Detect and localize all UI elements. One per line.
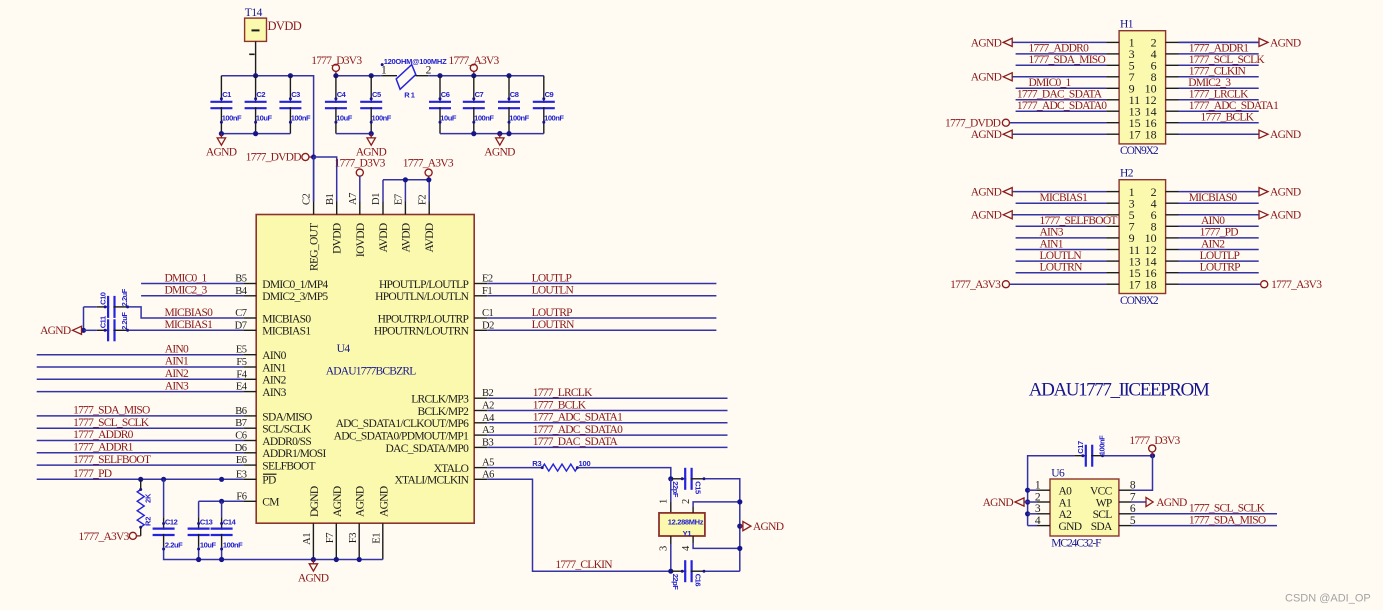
pin 15 and pin 16 of H1	[1106, 122, 1119, 124]
svg-text:HPOUTRN/LOUTRN: HPOUTRN/LOUTRN	[374, 326, 470, 338]
svg-text:C6: C6	[441, 90, 450, 99]
pin B3 DAC_SDATA/MP0 right of U4	[474, 446, 487, 448]
power port 1777_D3V3 at U6	[1149, 445, 1156, 452]
wire H2 left row net MICBIAS1	[1016, 202, 1107, 204]
svg-text:A2: A2	[1059, 509, 1073, 521]
wire A3V3 rail	[440, 75, 544, 77]
pin C6 ADDR0/SS left of U4	[243, 440, 256, 442]
wire H2 right row net AIN0	[1179, 225, 1259, 227]
svg-text:DMIC2_3: DMIC2_3	[165, 285, 208, 297]
svg-text:MICBIAS0: MICBIAS0	[262, 313, 311, 325]
svg-text:AGND: AGND	[983, 497, 1014, 509]
pin 15 and pin 16 of H2	[1106, 272, 1119, 274]
wire D3V3 rail	[336, 75, 381, 77]
svg-text:18: 18	[1145, 278, 1157, 292]
svg-text:HPOUTRP/LOUTRP: HPOUTRP/LOUTRP	[378, 313, 469, 325]
power port 1777_A3V3 at R2	[137, 535, 141, 537]
wire H1 pin17 to AGND	[1012, 133, 1106, 135]
svg-text:1777_ADDR1: 1777_ADDR1	[1189, 43, 1250, 55]
wire H2 left row net 1777_SELFBOOT	[1016, 225, 1107, 227]
svg-text:DMIC2_3: DMIC2_3	[1188, 77, 1231, 89]
svg-text:AGND: AGND	[356, 146, 387, 158]
svg-text:10uF: 10uF	[200, 540, 217, 549]
capacitor C3 100nF	[289, 76, 291, 103]
power port 1777_A3V3 H2 pin18	[1179, 283, 1261, 285]
pin A4 ADC_SDATA1/CLKOUT/MP6 right of U4	[474, 422, 487, 424]
pin F7 AGND bottom of U4	[335, 523, 337, 559]
svg-text:AGND: AGND	[206, 146, 237, 158]
svg-text:1777_D3V3: 1777_D3V3	[335, 158, 386, 170]
pin 7 and pin 8 of H1	[1106, 76, 1119, 78]
svg-text:SCL: SCL	[1093, 509, 1113, 521]
svg-text:100nF: 100nF	[372, 113, 392, 122]
wire net AIN1	[37, 366, 244, 368]
svg-text:AGND: AGND	[40, 325, 71, 337]
capacitor C11 2.2uF	[97, 329, 109, 331]
pin E6 SELFBOOT left of U4	[243, 464, 256, 466]
wire C6-C9 ground rail	[440, 133, 544, 135]
wire net LOUTRN	[487, 329, 716, 331]
capacitor C17 100nF	[1074, 455, 1087, 457]
wire H2 pin5 to AGND	[1012, 214, 1106, 216]
pin 11 and pin 12 of H1	[1106, 99, 1119, 101]
svg-text:2.2uF: 2.2uF	[120, 312, 129, 330]
svg-text:LOUTRP: LOUTRP	[1200, 262, 1241, 274]
svg-text:SDA/MISO: SDA/MISO	[262, 411, 312, 423]
svg-text:2: 2	[681, 499, 692, 504]
ground AGND H1 pin2	[1259, 38, 1268, 46]
ground AGND H2 pin1	[1003, 188, 1012, 196]
svg-text:1777_SCL_SCLK: 1777_SCL_SCLK	[1189, 54, 1266, 66]
pin E7 AVDD top of U4	[404, 202, 406, 215]
svg-text:A1: A1	[1059, 497, 1073, 509]
wire net 1777_CLKIN from XTALI	[487, 479, 671, 571]
svg-text:R1: R1	[404, 91, 416, 100]
resistor R2 2K pull to A3V3	[140, 479, 142, 489]
pin 3 and pin 4 of H2	[1106, 202, 1119, 204]
wire H2 left row net AIN3	[1016, 237, 1107, 239]
svg-text:3: 3	[659, 546, 670, 551]
svg-text:AGND: AGND	[355, 486, 367, 517]
svg-text:1777_BCLK: 1777_BCLK	[1201, 112, 1255, 124]
wire H1 right row net 1777_ADC_SDATA1	[1179, 110, 1259, 112]
wire H1 right row net 1777_CLKIN	[1179, 76, 1259, 78]
op-amp U4 ADAU1777BCBZRL body	[256, 215, 474, 524]
svg-text:C1: C1	[222, 90, 231, 99]
svg-text:DVDD: DVDD	[268, 19, 302, 33]
node D3V3 junction	[1150, 453, 1155, 458]
pin number 1 of T14	[249, 53, 254, 55]
svg-text:DMIC2_3/MP5: DMIC2_3/MP5	[262, 291, 328, 303]
wire net 1777_BCLK	[487, 410, 727, 412]
wire net CM	[199, 500, 244, 502]
pin A2 BCLK/MP2 right of U4	[474, 410, 487, 412]
ground AGND left of C10 C11	[73, 326, 82, 334]
svg-text:SCL/SCLK: SCL/SCLK	[262, 424, 311, 436]
wire H1 pin18 end	[1179, 133, 1259, 135]
svg-text:22pF: 22pF	[671, 574, 680, 591]
svg-text:DVDD: DVDD	[332, 223, 344, 254]
svg-text:AGND: AGND	[971, 210, 1002, 222]
wire H1 pin2 to AGND	[1179, 41, 1259, 43]
svg-text:1777_CLKIN: 1777_CLKIN	[1189, 66, 1247, 78]
pin C7 MICBIAS0 left of U4	[243, 317, 256, 319]
wire H2 right row net LOUTLP	[1179, 260, 1259, 262]
wire H1 left row net 1777_ADDR0	[1016, 53, 1107, 55]
svg-text:1777_SDA_MISO: 1777_SDA_MISO	[73, 405, 150, 417]
svg-text:ADDR0/SS: ADDR0/SS	[262, 436, 311, 448]
wire net AIN2	[37, 378, 244, 380]
wire VCC from D3V3 to pin8	[1132, 456, 1153, 491]
svg-text:C11: C11	[98, 316, 107, 328]
svg-text:8: 8	[1130, 480, 1136, 492]
svg-text:AIN1: AIN1	[262, 362, 286, 374]
wire net 1777_ADC_SDATA0	[487, 434, 727, 436]
svg-text:100nF: 100nF	[222, 113, 242, 122]
capacitor C8 100nF	[508, 76, 510, 103]
svg-text:LOUTRN: LOUTRN	[532, 319, 576, 331]
resistor R3 100	[542, 464, 577, 471]
wire crystal pin3	[670, 536, 672, 544]
pin B6 SDA/MISO left of U4	[243, 415, 256, 417]
wire AVDD bus	[383, 179, 429, 181]
wire C4-C5 ground rail	[336, 133, 371, 135]
svg-text:100nF: 100nF	[544, 113, 564, 122]
svg-text:A0: A0	[1059, 486, 1073, 498]
svg-text:C9: C9	[545, 90, 554, 99]
capacitor C4 10uF	[335, 76, 337, 103]
pin 9 and pin 10 of H2	[1106, 237, 1119, 239]
ground AGND under C1	[220, 134, 222, 138]
pin 2 A1 left of U6	[1037, 501, 1050, 503]
wire H1 right row net 1777_SCL_SCLK	[1179, 64, 1259, 66]
svg-text:C3: C3	[291, 90, 300, 99]
svg-text:E7: E7	[394, 194, 405, 205]
pin B2 LRCLK/MP3 right of U4	[474, 397, 487, 399]
svg-text:1777_SELFBOOT: 1777_SELFBOOT	[1040, 215, 1118, 227]
wire H1 left row net 1777_SDA_MISO	[1016, 64, 1107, 66]
svg-text:XTALO: XTALO	[434, 463, 469, 475]
svg-text:1777_SDA_MISO: 1777_SDA_MISO	[1189, 514, 1266, 526]
svg-text:AGND: AGND	[484, 146, 515, 158]
ground AGND H1 pin7	[1003, 73, 1012, 81]
svg-text:PD: PD	[262, 475, 276, 487]
svg-text:10uF: 10uF	[256, 113, 273, 122]
svg-text:1777_ADDR1: 1777_ADDR1	[73, 442, 134, 454]
wire C17 to D3V3	[1104, 455, 1153, 457]
svg-text:F2: F2	[417, 195, 428, 205]
wire net 1777_ADC_SDATA1	[487, 422, 727, 424]
svg-text:AGND: AGND	[753, 521, 784, 533]
svg-text:T14: T14	[245, 7, 263, 19]
wire net MICBIAS0 with jog	[84, 306, 97, 308]
svg-text:MICBIAS1: MICBIAS1	[262, 326, 311, 338]
pin 4 GND left of U6	[1037, 525, 1050, 527]
svg-text:100nF: 100nF	[474, 113, 494, 122]
svg-text:MC24C32-F: MC24C32-F	[1051, 538, 1101, 550]
svg-text:2: 2	[426, 65, 432, 77]
svg-text:BCLK/MP2: BCLK/MP2	[418, 406, 470, 418]
connector H1 CON9X2 body	[1119, 31, 1166, 144]
pin E4 AIN3 left of U4	[243, 391, 256, 393]
svg-text:MICBIAS0: MICBIAS0	[165, 307, 214, 319]
svg-text:E1: E1	[371, 533, 382, 544]
wire H2 left row net AIN1	[1016, 249, 1107, 251]
svg-text:LOUTRN: LOUTRN	[1040, 262, 1084, 274]
wire crystal pin2	[692, 507, 694, 513]
wire H2 right row net 1777_PD	[1179, 237, 1259, 239]
svg-text:AGND: AGND	[971, 37, 1002, 49]
svg-text:1777_A3V3: 1777_A3V3	[78, 531, 129, 543]
svg-text:DGND: DGND	[309, 486, 321, 517]
svg-text:C2: C2	[256, 90, 265, 99]
svg-text:MICBIAS0: MICBIAS0	[1189, 192, 1238, 204]
capacitor C12 2.2uF on PD	[163, 479, 165, 517]
svg-text:F3: F3	[348, 533, 359, 543]
pin A1 DGND bottom of U4	[312, 523, 314, 559]
svg-text:AGND: AGND	[1270, 37, 1301, 49]
node D3V3 rail junctions	[333, 73, 338, 78]
wire net 1777_SCL_SCLK	[37, 427, 244, 429]
wire net 1777_DAC_SDATA	[487, 446, 727, 448]
node DVDD junction	[311, 154, 316, 159]
ground AGND H2 pin5	[1003, 211, 1012, 219]
pin 17 and pin 18 of H2	[1106, 283, 1119, 285]
wire net 1777_ADDR1	[37, 452, 244, 454]
pin B5 DMIC0_1/MP4 left of U4	[243, 283, 256, 285]
svg-text:AGND: AGND	[971, 129, 1002, 141]
svg-text:1777_CLKIN: 1777_CLKIN	[555, 559, 613, 571]
svg-text:18: 18	[1145, 128, 1157, 142]
pin E1 AGND bottom of U4	[382, 523, 384, 559]
capacitor C15 22pF	[672, 478, 686, 480]
pin B1 DVDD top of U4	[336, 202, 338, 215]
svg-text:VCC: VCC	[1090, 486, 1113, 498]
svg-text:LOUTRP: LOUTRP	[532, 307, 573, 319]
svg-text:SELFBOOT: SELFBOOT	[262, 461, 315, 473]
ferrite bead R1 120OHM@100MHZ	[381, 75, 383, 77]
svg-text:1777_SCL_SCLK: 1777_SCL_SCLK	[73, 417, 150, 429]
svg-text:AGND: AGND	[378, 486, 390, 517]
wire H1 right row net DMIC2_3	[1179, 87, 1259, 89]
node CM junction	[219, 499, 224, 504]
capacitor C9 100nF	[543, 76, 545, 103]
capacitor C1 100nF	[220, 76, 222, 103]
svg-text:Y1: Y1	[683, 529, 692, 538]
ground AGND under U4	[312, 560, 314, 564]
wire C10 to MICBIAS0 row	[129, 307, 244, 318]
svg-text:1777_LRCLK: 1777_LRCLK	[533, 387, 593, 399]
wire H1 pin1 to AGND	[1012, 41, 1106, 43]
svg-text:AGND: AGND	[1270, 129, 1301, 141]
pin F6 CM left of U4	[243, 500, 256, 502]
svg-text:1777_ADDR0: 1777_ADDR0	[73, 429, 134, 441]
svg-text:1777_ADC_SDATA0: 1777_ADC_SDATA0	[1017, 100, 1107, 112]
node AGND junction left	[81, 328, 86, 333]
svg-text:1777_A3V3: 1777_A3V3	[448, 55, 499, 67]
power port 1777_DVDD H1 pin15	[1010, 122, 1107, 124]
ground AGND under C6-C9 rail	[499, 134, 501, 138]
svg-text:1777_A3V3: 1777_A3V3	[1271, 279, 1322, 291]
svg-text:WP: WP	[1096, 497, 1112, 509]
wire H1 pin18 to AGND	[1179, 41, 1259, 43]
wire C16 to ground rail	[705, 570, 740, 572]
pin 5 and pin 6 of H2	[1106, 214, 1119, 216]
pin 7 WP right of U6	[1119, 501, 1132, 503]
capacitor C5 100nF	[370, 76, 372, 103]
wire net 1777_PD	[37, 478, 244, 480]
pin 3 and pin 4 of H1	[1106, 53, 1119, 55]
pin D6 ADDR1/MOSI left of U4	[243, 452, 256, 454]
wire H2 pin2 to AGND	[1179, 191, 1259, 193]
pin A5 XTALO right of U4	[474, 467, 487, 469]
svg-text:AVDD: AVDD	[378, 223, 390, 252]
svg-text:C13: C13	[200, 517, 213, 526]
wire net AIN0	[37, 354, 244, 356]
svg-text:HPOUTLN/LOUTLN: HPOUTLN/LOUTLN	[375, 291, 469, 303]
wire vertical AGND to C10	[83, 307, 85, 330]
svg-text:AGND: AGND	[298, 572, 329, 584]
pin 11 and pin 12 of H2	[1106, 249, 1119, 251]
svg-text:1777_ADC_SDATA1: 1777_ADC_SDATA1	[533, 412, 623, 424]
pin D1 AVDD top of U4	[382, 202, 384, 215]
svg-text:AIN3: AIN3	[1040, 227, 1064, 239]
pin 5 and pin 6 of H1	[1106, 64, 1119, 66]
svg-text:22pF: 22pF	[671, 481, 680, 498]
node DVDD rail junctions	[253, 73, 258, 78]
svg-text:C12: C12	[165, 517, 178, 526]
svg-text:IOVDD: IOVDD	[355, 223, 367, 257]
wire DVDD to pins C2 and B1	[314, 157, 337, 202]
wire C15 to ground rail	[705, 479, 740, 571]
pin B4 DMIC2_3/MP5 left of U4	[243, 295, 256, 297]
wire H2 pin1 to AGND	[1012, 191, 1106, 193]
svg-text:D1: D1	[371, 193, 382, 205]
svg-text:DMIC0_1/MP4: DMIC0_1/MP4	[262, 279, 328, 291]
svg-text:1777_DVDD: 1777_DVDD	[246, 152, 302, 164]
svg-text:C7: C7	[475, 90, 484, 99]
ground AGND H1 pin1	[1003, 38, 1012, 46]
wire net 1777_SELFBOOT	[37, 464, 244, 466]
node ground rail junctions	[196, 557, 201, 562]
svg-text:GND: GND	[1059, 521, 1082, 533]
svg-text:C8: C8	[510, 90, 519, 99]
svg-text:SDA: SDA	[1091, 521, 1113, 533]
wire H1 right row net 1777_ADDR1	[1179, 53, 1259, 55]
svg-text:XTALI/MCLKIN: XTALI/MCLKIN	[394, 475, 469, 487]
node ground rail junctions	[219, 131, 224, 136]
pin E3 PD left of U4	[243, 478, 256, 480]
pin 7 and pin 8 of H2	[1106, 225, 1119, 227]
svg-text:CON9X2: CON9X2	[1120, 145, 1159, 157]
svg-text:C4: C4	[337, 90, 347, 99]
pin 9 and pin 10 of H1	[1106, 87, 1119, 89]
svg-text:DMIC0_1: DMIC0_1	[165, 272, 208, 284]
ground AGND at U6 A1	[1015, 498, 1024, 506]
svg-text:1777_LRCLK: 1777_LRCLK	[1189, 89, 1249, 101]
pin E2 HPOUTLP/LOUTLP right of U4	[474, 283, 487, 285]
connector H2 CON9X2 body	[1119, 180, 1166, 294]
wire C11 to MICBIAS1 row	[129, 329, 244, 331]
capacitor C13 10uF on CM	[198, 501, 200, 517]
svg-text:C5: C5	[372, 90, 381, 99]
svg-text:1777_ADDR0: 1777_ADDR0	[1029, 43, 1090, 55]
capacitor C7 100nF	[473, 76, 475, 103]
power port 1777_A3V3 H2 pin17	[1010, 283, 1107, 285]
svg-text:1777_SCL_SCLK: 1777_SCL_SCLK	[1189, 503, 1266, 515]
wire net LOUTRP	[487, 317, 716, 319]
pin E5 AIN0 left of U4	[243, 354, 256, 356]
svg-text:LOUTLP: LOUTLP	[532, 272, 572, 284]
wire H1 left row net 1777_ADC_SDATA0	[1016, 110, 1107, 112]
svg-text:2.2uF: 2.2uF	[165, 540, 183, 549]
node U6 left junctions	[1025, 488, 1030, 493]
wire H1 right row net 1777_BCLK	[1179, 122, 1259, 124]
svg-text:AIN2: AIN2	[1201, 238, 1225, 250]
wire crystal pin4	[692, 536, 694, 543]
wire net 1777_LRCLK	[487, 397, 727, 399]
wire H1 left row net DMIC0_1	[1016, 87, 1107, 89]
node C16 junction	[668, 569, 673, 574]
wire net 1777_SDA_MISO	[37, 415, 244, 417]
wire H2 right row net MICBIAS0	[1179, 202, 1259, 204]
svg-text:C17: C17	[1076, 441, 1085, 454]
svg-text:AVDD: AVDD	[424, 223, 436, 252]
svg-text:LRCLK/MP3: LRCLK/MP3	[411, 394, 469, 406]
pin 6 SCL right of U6	[1119, 513, 1132, 515]
svg-text:AIN3: AIN3	[165, 380, 189, 392]
svg-text:17: 17	[1129, 128, 1141, 142]
wire H1 left row net 1777_DAC_SDATA	[1016, 99, 1107, 101]
capacitor C10 2.2uF	[97, 306, 109, 308]
svg-text:AGND: AGND	[971, 187, 1002, 199]
node PD junctions	[138, 477, 143, 482]
pin B7 SCL/SCLK left of U4	[243, 427, 256, 429]
svg-text:1777_PD: 1777_PD	[73, 468, 112, 480]
svg-text:100nF: 100nF	[1098, 435, 1107, 455]
svg-text:DMIC0_1: DMIC0_1	[1029, 77, 1072, 89]
svg-text:1777_DVDD: 1777_DVDD	[945, 118, 1001, 130]
svg-text:R2: R2	[144, 517, 153, 526]
svg-text:A7: A7	[348, 193, 359, 205]
svg-text:C14: C14	[223, 517, 237, 526]
svg-text:AGND: AGND	[332, 486, 344, 517]
pin F5 AIN1 left of U4	[243, 366, 256, 368]
pin 17 and pin 18 of H1	[1106, 133, 1119, 135]
svg-text:AIN0: AIN0	[1201, 215, 1225, 227]
pin C1 HPOUTRP/LOUTRP right of U4	[474, 317, 487, 319]
svg-text:12.288MHz: 12.288MHz	[668, 518, 704, 527]
pin A3 ADC_SDATA0/PDMOUT/MP1 right of U4	[474, 434, 487, 436]
svg-text:H2: H2	[1120, 168, 1134, 180]
pin 1 A0 left of U6	[1037, 489, 1050, 491]
ground AGND H2 pin6	[1259, 211, 1268, 219]
svg-text:100: 100	[579, 459, 591, 468]
svg-text:LOUTLN: LOUTLN	[532, 285, 575, 297]
svg-text:ADAU1777_IICEEPROM: ADAU1777_IICEEPROM	[1029, 380, 1210, 401]
svg-text:1777_DAC_SDATA: 1777_DAC_SDATA	[533, 436, 619, 448]
svg-text:AIN2: AIN2	[165, 368, 189, 380]
pin D7 MICBIAS1 left of U4	[243, 329, 256, 331]
svg-text:10uF: 10uF	[440, 113, 457, 122]
svg-text:LOUTLP: LOUTLP	[1200, 250, 1240, 262]
svg-text:1777_D3V3: 1777_D3V3	[311, 55, 362, 67]
svg-text:1777_ADC_SDATA0: 1777_ADC_SDATA0	[533, 424, 623, 436]
wire R3 to crystal pin1	[577, 468, 670, 479]
wire H1 right row net 1777_LRCLK	[1179, 99, 1259, 101]
ground AGND H1 pin18	[1259, 130, 1268, 138]
svg-text:C16: C16	[693, 574, 702, 587]
